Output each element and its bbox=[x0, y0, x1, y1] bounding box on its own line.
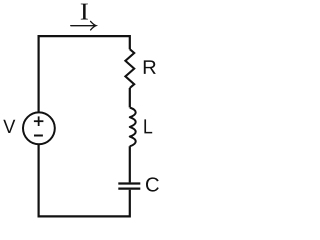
capacitor C top plate bbox=[118, 182, 140, 184]
capacitor label C bbox=[146, 177, 159, 191]
voltage source V circle bbox=[23, 112, 55, 144]
capacitor C bottom plate bbox=[118, 188, 140, 190]
inductor label L bbox=[144, 119, 152, 133]
current arrow bbox=[71, 21, 96, 30]
current label I bbox=[81, 4, 88, 20]
wire inductor to capacitor bbox=[129, 146, 131, 182]
resistor label R bbox=[144, 60, 156, 74]
plus sign inside source bbox=[34, 116, 44, 126]
resistor R zigzag bbox=[125, 49, 134, 88]
wire capacitor to bottom, across bottom, up to source - terminal bbox=[39, 144, 130, 216]
inductor L coils bbox=[130, 108, 136, 147]
wire from source + terminal up, across top, to resistor bbox=[39, 36, 130, 113]
source label V bbox=[3, 120, 15, 133]
wire resistor to inductor bbox=[129, 88, 131, 107]
minus sign inside source bbox=[34, 135, 43, 137]
